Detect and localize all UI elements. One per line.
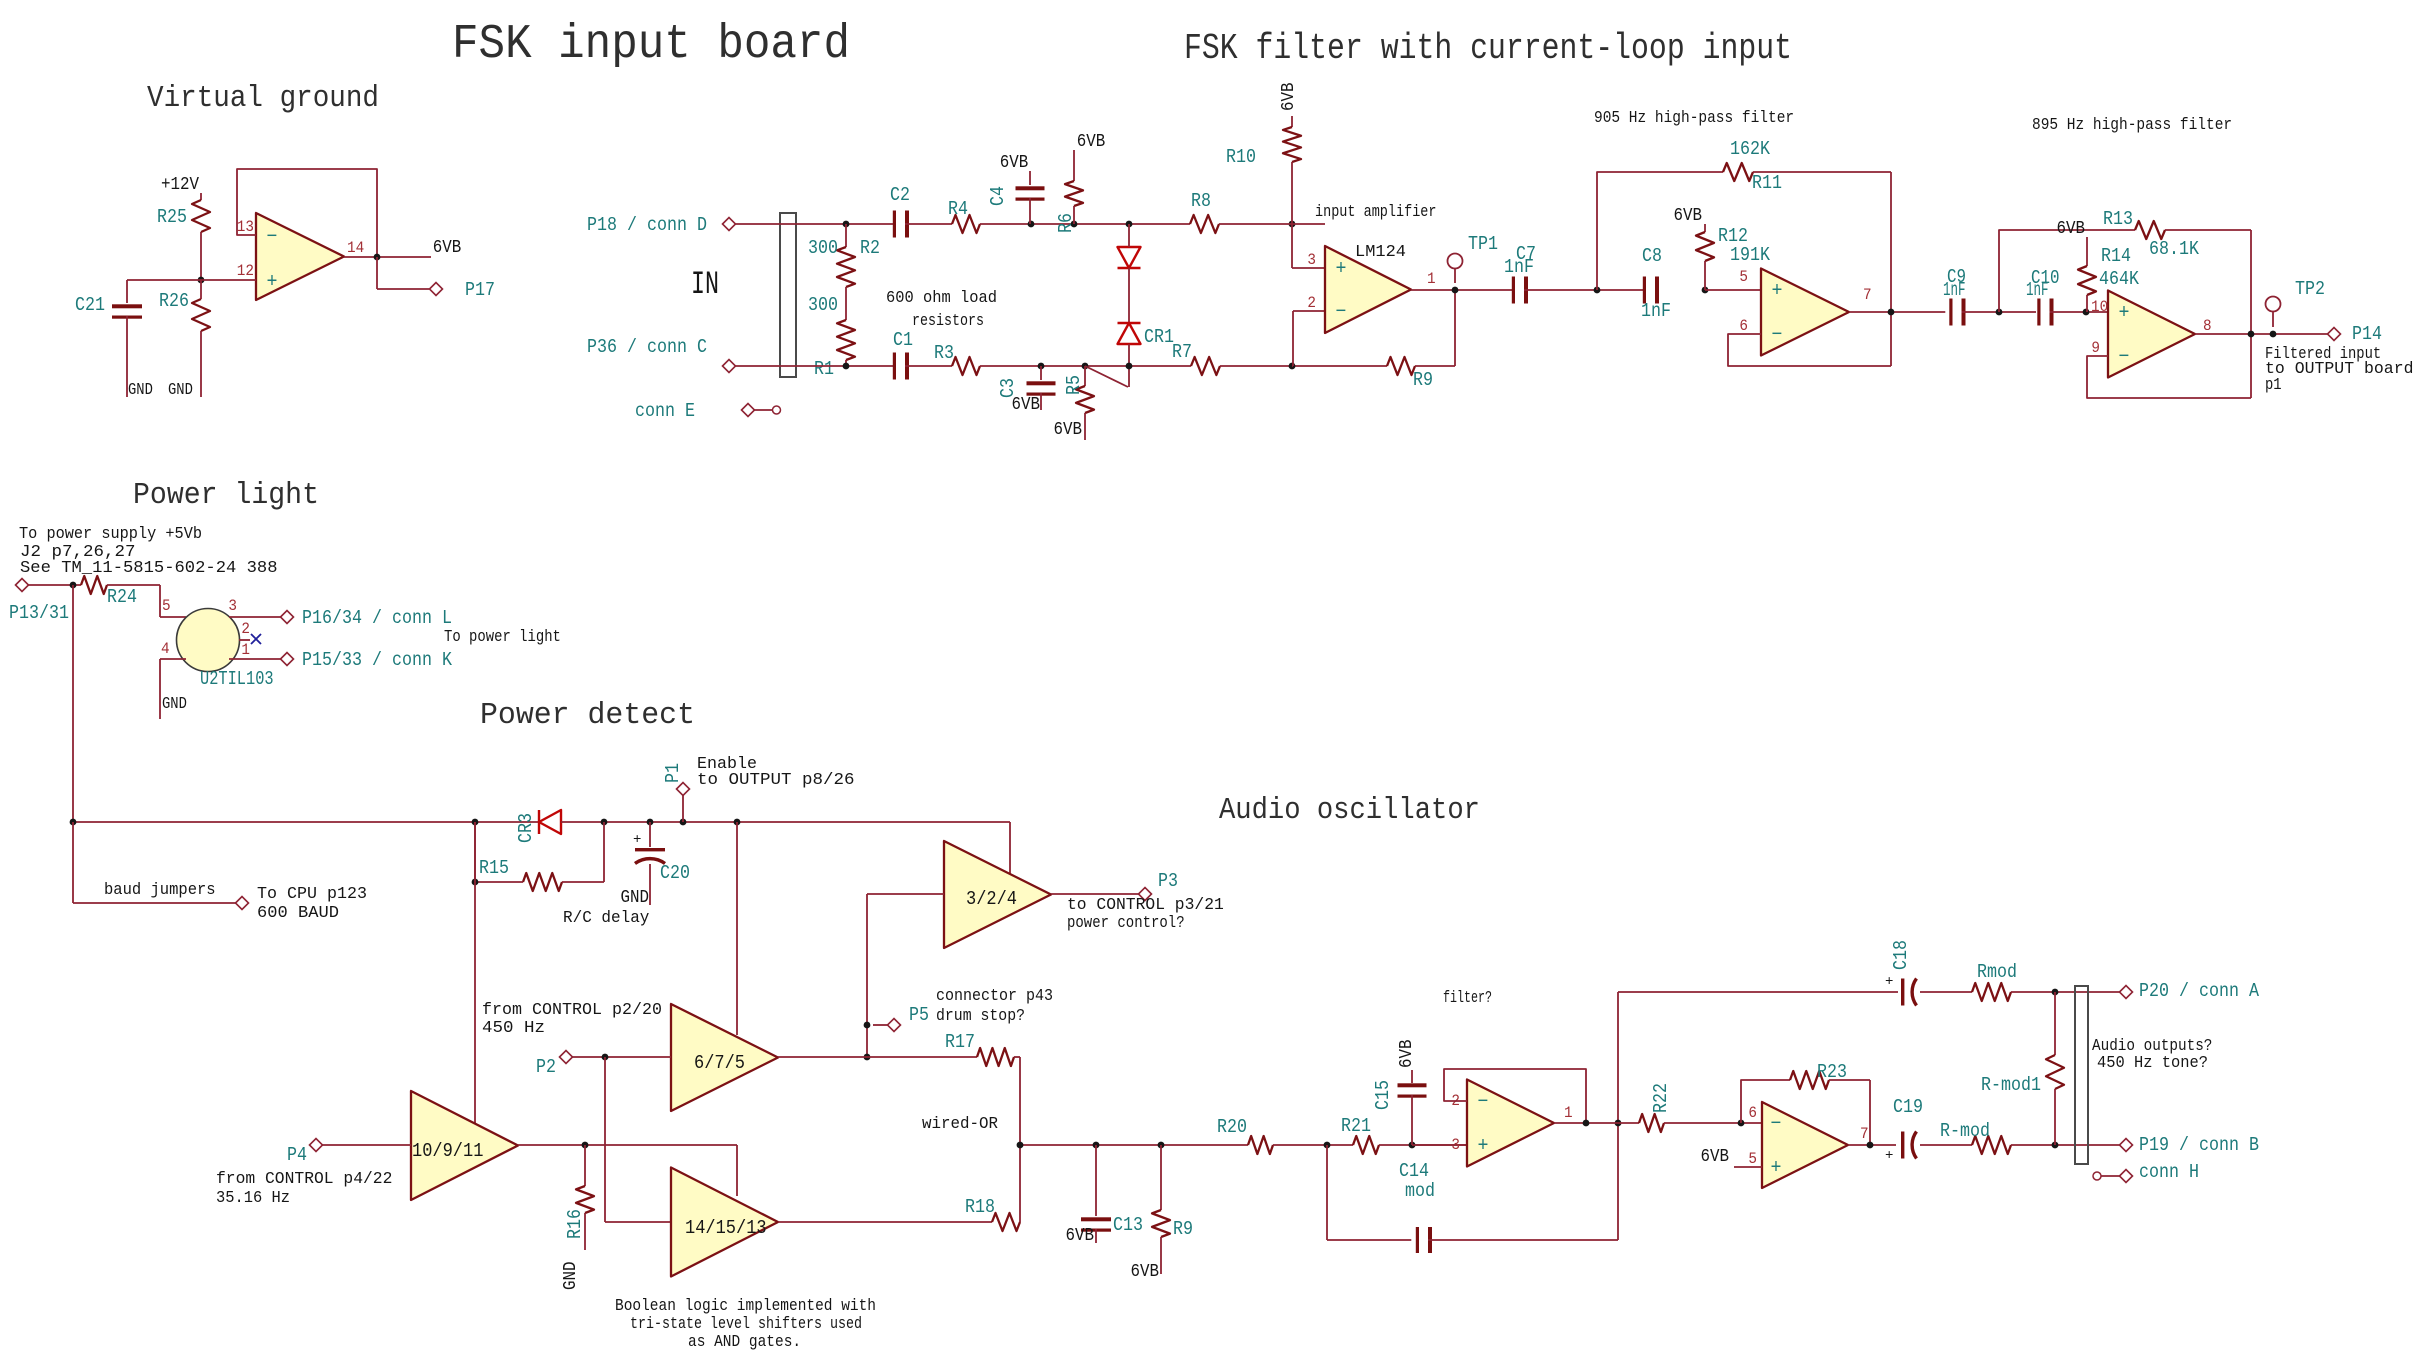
svg-text:10/9/11: 10/9/11 bbox=[412, 1140, 483, 1162]
svg-text:conn E: conn E bbox=[635, 400, 695, 422]
svg-text:R13: R13 bbox=[2103, 208, 2133, 230]
svg-text:Power detect: Power detect bbox=[480, 698, 695, 733]
svg-text:R/C delay: R/C delay bbox=[563, 909, 649, 928]
svg-text:8: 8 bbox=[2203, 317, 2212, 335]
svg-text:drum stop?: drum stop? bbox=[936, 1007, 1025, 1026]
svg-text:p1: p1 bbox=[2265, 376, 2282, 395]
svg-text:C2: C2 bbox=[890, 184, 910, 206]
svg-text:450 Hz: 450 Hz bbox=[482, 1019, 545, 1038]
svg-text:resistors: resistors bbox=[912, 312, 984, 331]
svg-text:P5: P5 bbox=[909, 1004, 929, 1026]
svg-text:1nF: 1nF bbox=[1641, 300, 1671, 322]
svg-text:3/2/4: 3/2/4 bbox=[966, 888, 1017, 910]
svg-text:10: 10 bbox=[2091, 298, 2108, 316]
svg-text:Rmod: Rmod bbox=[1977, 961, 2017, 983]
svg-text:6VB: 6VB bbox=[1066, 1226, 1095, 1246]
svg-text:R18: R18 bbox=[965, 1196, 995, 1218]
svg-text:Power light: Power light bbox=[133, 478, 319, 513]
svg-text:To power supply +5Vb: To power supply +5Vb bbox=[19, 525, 202, 544]
svg-text:R20: R20 bbox=[1217, 1116, 1247, 1138]
svg-text:+: + bbox=[633, 832, 641, 848]
svg-text:input amplifier: input amplifier bbox=[1315, 203, 1437, 222]
svg-text:wired-OR: wired-OR bbox=[922, 1115, 998, 1134]
svg-text:600 BAUD: 600 BAUD bbox=[257, 904, 339, 923]
svg-text:1: 1 bbox=[1564, 1104, 1573, 1122]
svg-text:R5: R5 bbox=[1063, 375, 1085, 395]
svg-text:C15: C15 bbox=[1372, 1080, 1394, 1110]
svg-text:R26: R26 bbox=[159, 290, 189, 312]
svg-text:6/7/5: 6/7/5 bbox=[694, 1052, 745, 1074]
svg-text:5: 5 bbox=[1739, 268, 1748, 286]
svg-text:P4: P4 bbox=[287, 1144, 307, 1166]
svg-text:6: 6 bbox=[1739, 317, 1748, 335]
svg-text:450 Hz tone?: 450 Hz tone? bbox=[2097, 1054, 2208, 1073]
svg-text:GND: GND bbox=[561, 1262, 581, 1291]
svg-text:162K: 162K bbox=[1730, 138, 1771, 160]
svg-text:−: − bbox=[1478, 1091, 1489, 1114]
svg-text:1nF: 1nF bbox=[1504, 256, 1534, 278]
svg-text:6VB: 6VB bbox=[1077, 132, 1106, 152]
svg-text:CR3: CR3 bbox=[515, 813, 537, 843]
svg-text:6VB: 6VB bbox=[1000, 153, 1029, 173]
svg-text:P14: P14 bbox=[2352, 323, 2382, 345]
svg-text:GND: GND bbox=[621, 888, 650, 908]
svg-text:R17: R17 bbox=[945, 1031, 975, 1053]
svg-text:P2: P2 bbox=[536, 1056, 556, 1078]
svg-text:905 Hz high-pass filter: 905 Hz high-pass filter bbox=[1594, 109, 1794, 128]
svg-text:from CONTROL p2/20: from CONTROL p2/20 bbox=[482, 1001, 662, 1020]
svg-text:+: + bbox=[1885, 1148, 1893, 1164]
svg-text:−: − bbox=[2119, 346, 2130, 369]
svg-text:5: 5 bbox=[162, 597, 171, 615]
svg-text:P15/33 / conn K: P15/33 / conn K bbox=[302, 649, 453, 671]
svg-text:See TM_11-5815-602-24 388: See TM_11-5815-602-24 388 bbox=[20, 559, 278, 578]
svg-text:895 Hz high-pass filter: 895 Hz high-pass filter bbox=[2032, 116, 2232, 135]
svg-text:to CONTROL p3/21: to CONTROL p3/21 bbox=[1067, 896, 1224, 915]
svg-text:R25: R25 bbox=[157, 206, 187, 228]
svg-text:Audio oscillator: Audio oscillator bbox=[1219, 793, 1480, 828]
svg-text:conn H: conn H bbox=[2139, 1161, 2199, 1183]
svg-text:R11: R11 bbox=[1752, 172, 1782, 194]
svg-text:3: 3 bbox=[1451, 1136, 1460, 1154]
svg-text:To CPU p123: To CPU p123 bbox=[257, 885, 367, 904]
svg-text:R4: R4 bbox=[948, 198, 968, 220]
svg-text:connector p43: connector p43 bbox=[936, 987, 1053, 1006]
svg-text:−: − bbox=[1771, 1113, 1782, 1136]
svg-text:5: 5 bbox=[1748, 1150, 1757, 1168]
svg-text:filter?: filter? bbox=[1443, 989, 1492, 1008]
svg-text:P19 / conn B: P19 / conn B bbox=[2139, 1134, 2259, 1156]
svg-text:CR1: CR1 bbox=[1144, 326, 1174, 348]
svg-text:300: 300 bbox=[808, 294, 838, 316]
svg-text:+: + bbox=[1772, 280, 1783, 303]
svg-text:7: 7 bbox=[1863, 286, 1872, 304]
svg-text:P13/31: P13/31 bbox=[9, 602, 69, 624]
svg-text:R24: R24 bbox=[107, 586, 137, 608]
svg-text:R16: R16 bbox=[564, 1209, 586, 1239]
svg-text:9: 9 bbox=[2091, 339, 2100, 357]
svg-text:GND: GND bbox=[162, 695, 187, 714]
svg-text:1: 1 bbox=[1427, 270, 1436, 288]
svg-text:P1: P1 bbox=[662, 763, 684, 783]
svg-text:4: 4 bbox=[161, 640, 170, 658]
svg-text:C14: C14 bbox=[1399, 1160, 1429, 1182]
svg-text:GND: GND bbox=[128, 381, 153, 400]
svg-text:to OUTPUT board: to OUTPUT board bbox=[2265, 360, 2413, 379]
svg-text:from CONTROL p4/22: from CONTROL p4/22 bbox=[216, 1170, 392, 1189]
svg-text:191K: 191K bbox=[1730, 244, 1771, 266]
svg-text:tri-state level shifters used: tri-state level shifters used bbox=[630, 1315, 862, 1334]
svg-text:6: 6 bbox=[1748, 1104, 1757, 1122]
svg-text:R-mod1: R-mod1 bbox=[1981, 1074, 2041, 1096]
svg-text:−: − bbox=[1772, 324, 1783, 347]
svg-text:P18 / conn D: P18 / conn D bbox=[587, 214, 707, 236]
svg-text:TP1: TP1 bbox=[1468, 233, 1498, 255]
svg-text:6VB: 6VB bbox=[1012, 395, 1041, 415]
svg-text:to OUTPUT p8/26: to OUTPUT p8/26 bbox=[697, 771, 855, 790]
svg-text:baud jumpers: baud jumpers bbox=[104, 881, 216, 900]
svg-text:IN: IN bbox=[691, 266, 719, 303]
svg-text:12: 12 bbox=[237, 262, 254, 280]
svg-text:13: 13 bbox=[237, 218, 254, 236]
svg-text:+12V: +12V bbox=[161, 175, 199, 195]
svg-text:6VB: 6VB bbox=[1054, 420, 1083, 440]
svg-text:R9: R9 bbox=[1413, 369, 1433, 391]
svg-text:1nF: 1nF bbox=[1943, 279, 1966, 301]
svg-text:C1: C1 bbox=[893, 329, 913, 351]
svg-text:P20 / conn A: P20 / conn A bbox=[2139, 980, 2260, 1002]
svg-text:C4: C4 bbox=[987, 186, 1009, 206]
svg-text:R1: R1 bbox=[814, 358, 834, 380]
svg-text:R2: R2 bbox=[860, 237, 880, 259]
svg-text:+: + bbox=[1336, 258, 1347, 281]
svg-text:+: + bbox=[1771, 1157, 1782, 1180]
svg-text:−: − bbox=[267, 226, 278, 249]
svg-text:+: + bbox=[2119, 302, 2130, 325]
svg-text:P17: P17 bbox=[465, 279, 495, 301]
svg-text:+: + bbox=[1478, 1135, 1489, 1158]
svg-text:R15: R15 bbox=[479, 857, 509, 879]
svg-text:P16/34 / conn L: P16/34 / conn L bbox=[302, 607, 452, 629]
svg-text:1: 1 bbox=[241, 641, 250, 659]
svg-text:6VB: 6VB bbox=[1279, 82, 1299, 111]
svg-text:power control?: power control? bbox=[1067, 914, 1185, 933]
svg-text:+: + bbox=[1885, 974, 1893, 990]
svg-text:C20: C20 bbox=[660, 862, 690, 884]
svg-text:3: 3 bbox=[228, 597, 237, 615]
svg-text:FSK filter with current-loop i: FSK filter with current-loop input bbox=[1184, 28, 1792, 69]
svg-text:R7: R7 bbox=[1172, 341, 1192, 363]
svg-text:1nF: 1nF bbox=[2026, 279, 2049, 301]
svg-text:−: − bbox=[1336, 301, 1347, 324]
svg-text:R3: R3 bbox=[934, 342, 954, 364]
svg-text:35.16 Hz: 35.16 Hz bbox=[216, 1189, 290, 1208]
svg-text:3: 3 bbox=[1307, 251, 1316, 269]
svg-text:C13: C13 bbox=[1113, 1214, 1143, 1236]
svg-text:P36 / conn C: P36 / conn C bbox=[587, 336, 707, 358]
svg-text:C18: C18 bbox=[1890, 940, 1912, 970]
svg-text:2: 2 bbox=[241, 620, 250, 638]
svg-text:R21: R21 bbox=[1341, 1115, 1371, 1137]
svg-text:TP2: TP2 bbox=[2295, 278, 2325, 300]
svg-text:LM124: LM124 bbox=[1355, 243, 1406, 262]
svg-text:as AND gates.: as AND gates. bbox=[688, 1333, 801, 1352]
svg-text:R-mod: R-mod bbox=[1940, 1120, 1990, 1142]
svg-text:R14: R14 bbox=[2101, 245, 2131, 267]
svg-text:FSK input board: FSK input board bbox=[452, 18, 850, 72]
svg-text:600 ohm load: 600 ohm load bbox=[886, 289, 997, 308]
svg-text:6VB: 6VB bbox=[1674, 206, 1703, 226]
svg-text:R6: R6 bbox=[1055, 213, 1077, 233]
svg-text:To power light: To power light bbox=[444, 628, 561, 647]
svg-text:+: + bbox=[267, 271, 278, 294]
svg-text:R23: R23 bbox=[1817, 1061, 1847, 1083]
svg-text:P3: P3 bbox=[1158, 870, 1178, 892]
svg-text:U2TIL103: U2TIL103 bbox=[200, 668, 274, 690]
svg-text:R22: R22 bbox=[1650, 1083, 1672, 1113]
svg-text:14: 14 bbox=[347, 239, 364, 257]
svg-text:68.1K: 68.1K bbox=[2149, 238, 2200, 260]
svg-text:2: 2 bbox=[1307, 294, 1316, 312]
svg-text:6VB: 6VB bbox=[1131, 1262, 1160, 1282]
svg-text:6VB: 6VB bbox=[433, 238, 462, 258]
svg-text:464K: 464K bbox=[2099, 268, 2140, 290]
svg-text:6VB: 6VB bbox=[1397, 1039, 1417, 1068]
svg-text:6VB: 6VB bbox=[1701, 1147, 1730, 1167]
svg-text:14/15/13: 14/15/13 bbox=[685, 1217, 767, 1239]
svg-text:R8: R8 bbox=[1191, 190, 1211, 212]
svg-text:Virtual ground: Virtual ground bbox=[147, 81, 379, 116]
svg-text:7: 7 bbox=[1860, 1125, 1869, 1143]
svg-text:Boolean logic implemented with: Boolean logic implemented with bbox=[615, 1297, 876, 1316]
svg-text:C21: C21 bbox=[75, 294, 105, 316]
svg-text:C8: C8 bbox=[1642, 245, 1662, 267]
svg-text:mod: mod bbox=[1405, 1180, 1435, 1202]
svg-text:GND: GND bbox=[168, 381, 193, 400]
svg-text:C19: C19 bbox=[1893, 1096, 1923, 1118]
svg-text:R10: R10 bbox=[1226, 146, 1256, 168]
svg-text:300: 300 bbox=[808, 237, 838, 259]
svg-text:6VB: 6VB bbox=[2057, 219, 2086, 239]
svg-text:R9: R9 bbox=[1173, 1218, 1193, 1240]
